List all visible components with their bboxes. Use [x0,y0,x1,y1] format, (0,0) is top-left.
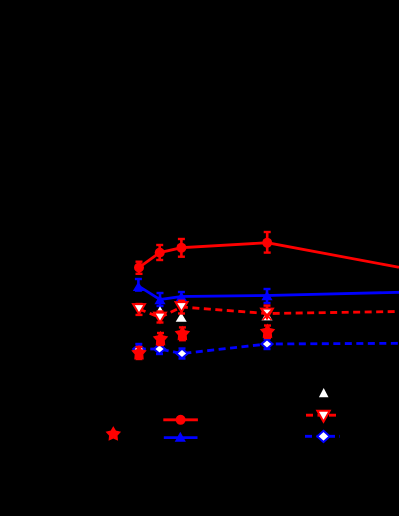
open inverted triangle marker 4 [261,309,273,319]
open diamond marker 3 [176,349,187,359]
red star marker 1 [132,346,146,359]
red circle error bar [156,245,163,260]
red solid series line [139,243,399,268]
open diamond marker 2 [154,344,165,354]
blue triangle error bar [178,292,185,302]
blue up-triangle marker 2 [154,295,165,304]
red star marker 2 [154,332,168,345]
blue solid series line [138,286,399,300]
star error bar [157,333,164,345]
open diamond marker 1 [133,344,144,354]
red circle marker 3 [176,243,186,253]
open inverted triangle marker 2 [154,313,166,323]
blue triangle error bar [135,279,142,291]
blue triangle error bar [157,293,164,306]
blue up-triangle marker 3 [176,292,187,301]
diamond error bar [179,349,186,359]
red circle marker 4 [262,238,272,248]
star error bar [136,347,143,359]
open inverted triangle marker 1 [133,304,145,314]
blue dashed series line [139,343,399,353]
open diamond marker 4 [261,339,272,349]
red dashed series line [139,307,399,318]
inverted-triangle error bar [178,301,185,314]
white up-triangle marker 1 [155,306,166,315]
legend blue triangle entry [164,432,198,442]
legend red star [107,427,121,440]
legend red circle entry [163,415,198,425]
blue up-triangle marker 1 [133,282,144,291]
red X marker over inverted triangle 4 [263,310,272,320]
red circle error bar [178,239,185,257]
open inverted triangle marker 3 [176,302,188,312]
diamond error bar [156,344,163,354]
diamond error bar [135,344,142,354]
legend diamond entry [305,431,340,442]
blue triangle error bar [264,289,271,303]
red star marker 3 [176,327,190,340]
star error bar [264,326,271,338]
legend white up-triangle entry [319,388,329,397]
inverted-triangle error bar [136,304,143,315]
star error bar [179,327,186,340]
red circle marker 2 [155,248,165,258]
inverted-triangle error bar [264,306,271,312]
blue up-triangle marker 4 [261,291,272,300]
red circle marker 1 [134,263,144,273]
red star marker 4 [261,325,275,338]
diamond error bar [264,339,271,349]
red circle error bar [136,262,143,274]
inverted-triangle error bar [157,312,164,323]
white up-triangle marker 2 [176,313,187,322]
white up-triangle marker 3 [262,311,273,320]
red circle error bar [264,232,271,253]
legend inverted triangle entry [306,411,339,422]
